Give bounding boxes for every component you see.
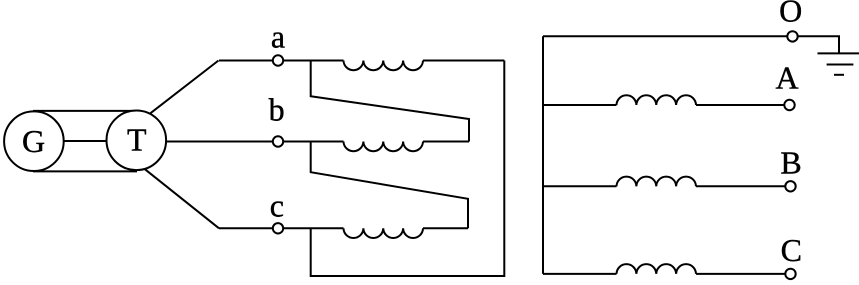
svg-text:a: a (271, 19, 285, 55)
svg-text:c: c (270, 188, 284, 224)
svg-text:b: b (269, 92, 285, 128)
svg-text:T: T (127, 122, 147, 158)
svg-text:O: O (779, 0, 802, 28)
svg-text:G: G (22, 123, 45, 159)
svg-text:C: C (781, 232, 802, 268)
svg-text:B: B (780, 145, 801, 181)
svg-text:A: A (775, 60, 798, 96)
